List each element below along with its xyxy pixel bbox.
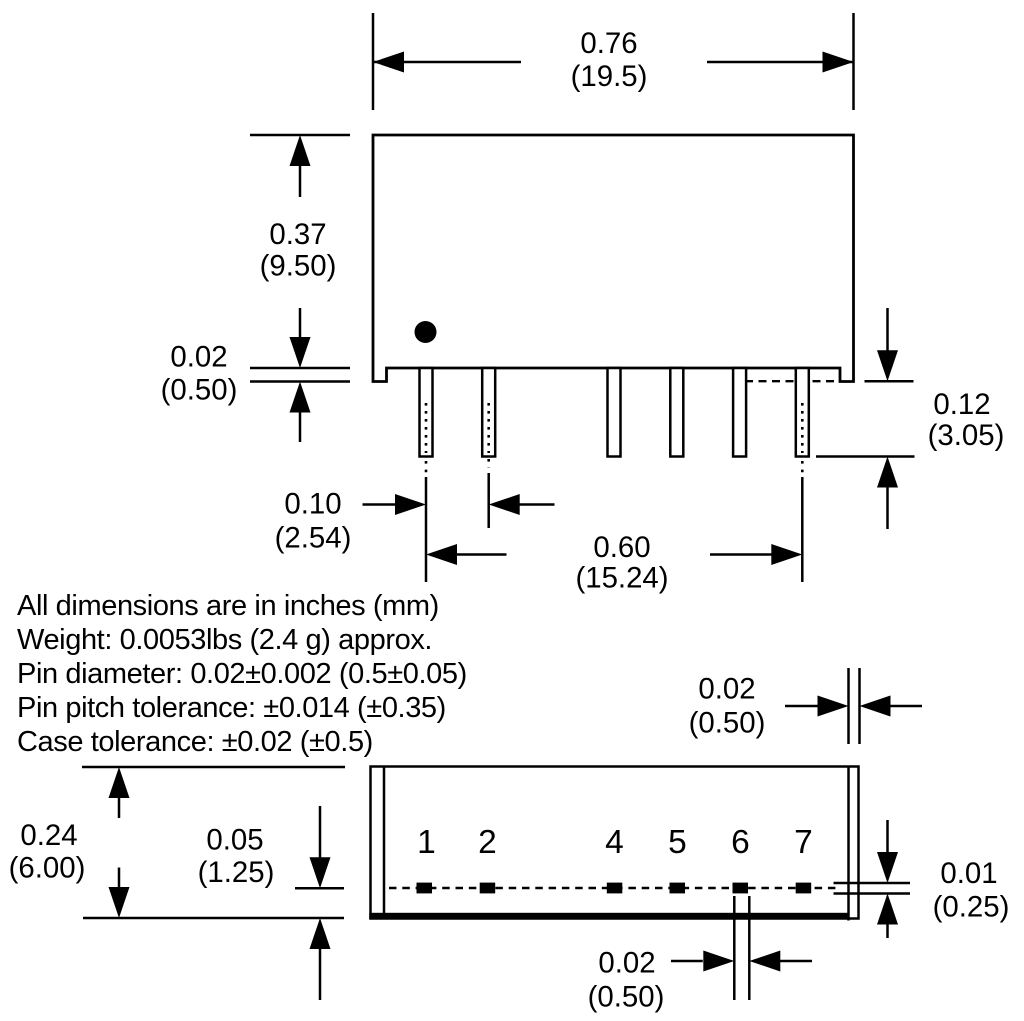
dim 0.60 left line — [456, 553, 507, 556]
dim 0.37 lower stem — [299, 308, 302, 340]
dim 0.12 up arrowhead — [877, 457, 898, 488]
pin P4 — [608, 368, 621, 457]
svg-text:Case tolerance: ±0.02 (±0.5): Case tolerance: ±0.02 (±0.5) — [17, 726, 373, 758]
pin P7 — [796, 368, 809, 457]
pin P1 center dotted line — [425, 403, 428, 453]
pin pad square 6 — [733, 883, 749, 894]
dim 0.02 wall right-pointing arrowhead — [818, 696, 849, 717]
dim 0.76 left extension line — [372, 13, 375, 110]
dim 0.05 upper stem — [319, 806, 322, 858]
dim 0.02 wall left-pointing arrowhead — [860, 696, 891, 717]
dim 0.10 pin1 extension line — [425, 477, 428, 582]
dim 0.24 top extension line — [82, 766, 345, 769]
svg-text:0.24: 0.24 — [20, 819, 77, 852]
dim 0.02 lower stem — [299, 412, 302, 442]
dim 0.05 extension line — [295, 887, 344, 890]
dim 0.37 upper stem — [299, 164, 302, 197]
pin pad square 1 — [417, 883, 433, 894]
case outline bottom view — [371, 767, 859, 919]
svg-text:0.60: 0.60 — [593, 531, 650, 564]
dim 0.10 left lead line — [363, 503, 397, 506]
dim 0.76 left arrowhead — [373, 52, 404, 73]
dim 0.12 upper extension line — [865, 380, 914, 383]
dim 0.02 wall left lead — [785, 705, 819, 708]
dim 0.02 pin right-pointing arrowhead — [703, 951, 734, 972]
case base thick line — [369, 913, 849, 919]
svg-text:0.76: 0.76 — [580, 27, 637, 60]
pin P2 center dotted line — [487, 403, 490, 453]
dim 0.37 top extension line — [250, 134, 350, 137]
dim 0.76 dimension line right segment — [707, 61, 854, 64]
svg-text:4: 4 — [605, 824, 624, 861]
svg-text:(0.50): (0.50) — [689, 707, 766, 740]
svg-text:(6.00): (6.00) — [9, 852, 86, 885]
standoff dashed line (right side) — [745, 380, 840, 382]
dim 0.01 up arrowhead — [877, 894, 898, 925]
dim 0.10 pin2 extension line — [487, 473, 490, 528]
dim 0.02 up arrowhead below — [290, 382, 311, 413]
svg-text:(1.25): (1.25) — [198, 856, 275, 889]
dim 0.02 pin left-pointing arrowhead — [749, 951, 780, 972]
dim 0.12 lower extension line — [816, 455, 915, 458]
case body top view — [373, 135, 854, 382]
dim 0.60 pin7 extension line — [801, 477, 804, 582]
dim 0.01 upper extension line — [834, 882, 911, 885]
pin centre dashed line bottom view — [389, 887, 837, 890]
dim 0.10 right-pointing arrowhead — [395, 494, 426, 515]
dim 0.01 upper stem — [886, 820, 889, 853]
pin pad square 7 — [796, 883, 812, 894]
svg-text:(15.24): (15.24) — [575, 562, 668, 595]
dim 0.02 lower extension line — [250, 380, 350, 383]
dim 0.02 pin left extension line — [733, 896, 736, 1000]
dim 0.76 right extension line — [852, 13, 855, 110]
dim 0.02 wall left extension line — [847, 668, 850, 744]
dim 0.10 left-pointing arrowhead — [489, 494, 520, 515]
dim 0.02 pin left lead — [671, 960, 703, 963]
dim 0.24 up arrowhead — [109, 767, 130, 798]
dim 0.02 pin right extension line — [748, 896, 751, 1000]
svg-text:0.02: 0.02 — [170, 341, 227, 374]
case left wall line — [383, 767, 386, 919]
pin P5 — [670, 368, 683, 457]
svg-text:7: 7 — [794, 824, 813, 861]
dim 0.37 down arrowhead — [290, 337, 311, 368]
svg-text:1: 1 — [417, 824, 436, 861]
dim 0.37 up arrowhead — [290, 135, 311, 166]
dim 0.05 down arrowhead — [310, 857, 331, 888]
svg-text:(0.50): (0.50) — [588, 981, 665, 1014]
dim 0.12 lower stem — [886, 487, 889, 529]
dim 0.10 right lead line — [519, 503, 555, 506]
pin 1 indicator dot — [415, 321, 437, 343]
dim 0.24 lower stem — [118, 868, 121, 889]
dim 0.01 lower stem — [886, 924, 889, 938]
svg-text:5: 5 — [668, 824, 687, 861]
dim 0.02 wall right extension line — [858, 668, 861, 744]
dim 0.24 bottom extension line — [83, 917, 344, 920]
pin pad square 4 — [607, 883, 623, 894]
svg-text:(0.50): (0.50) — [161, 374, 238, 407]
svg-text:(3.05): (3.05) — [928, 419, 1005, 452]
dim 0.02 pin right lead — [778, 960, 812, 963]
svg-text:6: 6 — [731, 824, 750, 861]
svg-text:0.02: 0.02 — [598, 947, 655, 980]
svg-text:0.02: 0.02 — [698, 673, 755, 706]
svg-text:(2.54): (2.54) — [275, 522, 352, 555]
svg-text:Pin diameter: 0.02±0.002 (0.5±: Pin diameter: 0.02±0.002 (0.5±0.05) — [17, 658, 467, 690]
dim 0.60 right arrowhead — [771, 544, 802, 565]
svg-text:All dimensions are in inches (: All dimensions are in inches (mm) — [17, 590, 439, 622]
svg-text:0.01: 0.01 — [940, 857, 997, 890]
dim 0.05 lower stem — [319, 948, 322, 1000]
dim 0.12 upper stem — [886, 308, 889, 352]
svg-text:2: 2 — [478, 824, 497, 861]
pin P1 — [420, 368, 433, 457]
svg-text:(0.25): (0.25) — [933, 891, 1010, 924]
pin P6 — [733, 368, 746, 457]
svg-text:0.10: 0.10 — [284, 488, 341, 521]
dim 0.01 down arrowhead — [877, 852, 898, 883]
svg-text:(19.5): (19.5) — [571, 60, 648, 93]
case right wall line — [847, 767, 850, 921]
dim 0.05 up arrowhead — [310, 918, 331, 949]
dim 0.02 wall right lead — [890, 705, 923, 708]
dim 0.24 down arrowhead — [109, 887, 130, 918]
pin P2 — [482, 368, 495, 457]
dim 0.01 lower extension line — [834, 892, 911, 895]
dim 0.60 right line — [710, 553, 772, 556]
dim 0.02 upper extension line — [250, 367, 350, 370]
svg-text:Weight: 0.0053lbs (2.4 g) appr: Weight: 0.0053lbs (2.4 g) approx. — [17, 624, 432, 656]
pin pad square 5 — [670, 883, 686, 894]
dim 0.76 dimension line left segment — [373, 61, 521, 64]
dim 0.24 upper stem — [118, 797, 121, 818]
svg-text:(9.50): (9.50) — [260, 250, 337, 283]
svg-text:0.37: 0.37 — [269, 218, 326, 251]
svg-text:0.12: 0.12 — [933, 388, 990, 421]
svg-text:Pin pitch tolerance: ±0.014 (±: Pin pitch tolerance: ±0.014 (±0.35) — [17, 692, 446, 724]
pin P7 center dotted line — [801, 403, 804, 453]
svg-text:0.05: 0.05 — [206, 824, 263, 857]
dim 0.60 left arrowhead — [426, 544, 457, 565]
pin pad square 2 — [480, 883, 496, 894]
dim 0.12 down arrowhead — [877, 350, 898, 381]
dim 0.76 right arrowhead — [823, 52, 854, 73]
